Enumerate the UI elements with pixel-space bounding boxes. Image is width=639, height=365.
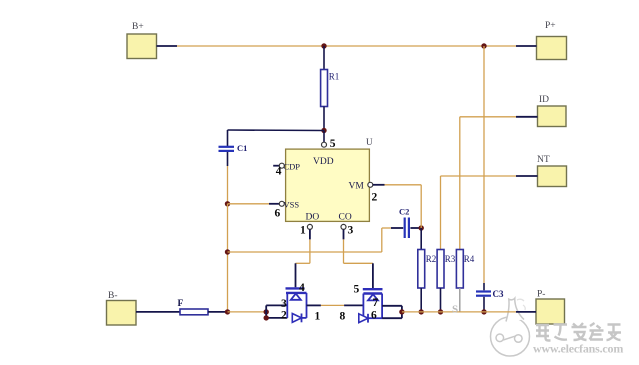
wire rail to FET source split	[228, 311, 267, 313]
node junction left riser / DO-CO net	[225, 249, 230, 254]
wire C1 top to pin5 node	[228, 130, 325, 146]
pad ID	[538, 95, 567, 127]
diode Q2 body	[359, 314, 382, 323]
node junction Q2/P- rail	[399, 309, 404, 314]
wire C2 right to VM node	[410, 227, 421, 229]
svg-text:R3: R3	[445, 254, 456, 264]
svg-text:P+: P+	[545, 21, 556, 31]
node junction R1 bottom / pin5 / C1 net	[321, 128, 326, 133]
capacitor C2	[399, 207, 409, 239]
svg-text:3: 3	[281, 298, 287, 310]
node junction top P+ riser	[481, 43, 486, 48]
svg-text:C3: C3	[493, 289, 504, 299]
wire P+ riser	[483, 46, 485, 290]
svg-text:P-: P-	[537, 290, 545, 300]
node junction B- riser	[225, 309, 230, 314]
svg-text:ID: ID	[539, 95, 549, 105]
pad P-	[536, 290, 565, 325]
svg-text:1: 1	[300, 225, 306, 237]
node junction C3 bottom	[481, 309, 486, 314]
node junction C2/VM/R2	[419, 225, 424, 230]
svg-text:www.elecfans.com: www.elecfans.com	[533, 342, 623, 356]
svg-text:VDD: VDD	[313, 157, 334, 167]
pin 4 CDP	[273, 163, 284, 177]
svg-text:CDP: CDP	[284, 162, 301, 172]
resistor R1	[321, 46, 340, 131]
wire DO to Q1 gate	[296, 229, 310, 287]
pin 1 DO	[300, 224, 312, 236]
svg-text:3: 3	[348, 225, 354, 237]
svg-text:6: 6	[371, 310, 377, 322]
svg-text:S: S	[452, 304, 458, 316]
wire top rail B+ to P+	[157, 45, 537, 47]
svg-text:C1: C1	[237, 143, 247, 153]
wire source split verticals	[266, 305, 287, 318]
wire Q1 drain to Q2 source	[307, 304, 364, 306]
wire VSS pin	[228, 203, 280, 205]
wire ID net	[460, 116, 538, 118]
svg-text:2: 2	[372, 192, 378, 204]
node junction R2 bottom	[419, 309, 424, 314]
wire VM to C2 node	[373, 185, 421, 228]
pin 6 VSS	[275, 201, 285, 219]
pad B-	[107, 291, 137, 325]
resistor R3	[437, 176, 456, 312]
pin 2 VM	[368, 182, 378, 203]
svg-text:C2: C2	[399, 207, 409, 217]
pad NT	[537, 155, 567, 187]
svg-text:VM: VM	[349, 182, 365, 192]
capacitor C3	[476, 289, 504, 299]
svg-text:F: F	[178, 299, 184, 309]
svg-text:4: 4	[276, 166, 282, 178]
svg-text:U: U	[366, 137, 373, 147]
wire Q2 drain to P- node	[382, 306, 402, 318]
IC U body	[284, 137, 374, 223]
wire C1 bottom to VSS net	[227, 152, 229, 204]
pad P+	[537, 21, 567, 60]
svg-text:R4: R4	[464, 254, 475, 264]
svg-text:DO: DO	[306, 213, 320, 223]
diode Q1 body	[292, 314, 306, 323]
wire NT net	[441, 175, 538, 177]
transistor Q2 (right MOSFET)	[354, 284, 383, 319]
pad B+	[127, 22, 157, 59]
pin 5 VDD	[322, 131, 336, 150]
wire B- to fuse	[136, 311, 180, 313]
svg-text:1: 1	[315, 311, 321, 323]
svg-text:4: 4	[299, 282, 305, 294]
wire bottom rail to P-	[402, 311, 536, 313]
node junction pin2 elbow	[264, 315, 269, 320]
wire C3 bottom	[483, 297, 485, 312]
svg-text:B+: B+	[132, 22, 144, 32]
resistor R4	[456, 117, 474, 312]
node junction R3 bottom	[438, 309, 443, 314]
svg-text:NT: NT	[537, 155, 550, 165]
watermark CJK text	[536, 323, 621, 341]
svg-text:6: 6	[275, 208, 281, 220]
svg-text:5: 5	[354, 284, 360, 296]
node junction C1/VSS	[225, 201, 230, 206]
svg-text:B-: B-	[108, 291, 118, 301]
svg-text:R2: R2	[426, 254, 437, 264]
svg-text:R1: R1	[329, 72, 340, 82]
watermark logo bubble	[491, 298, 530, 356]
svg-text:8: 8	[340, 311, 346, 323]
fuse F	[178, 299, 209, 315]
node junction source split	[264, 309, 269, 314]
wire CO to Q2 gate	[344, 229, 373, 288]
wire fuse to junction	[208, 311, 228, 313]
svg-text:5: 5	[330, 138, 336, 150]
svg-text:VSS: VSS	[284, 200, 300, 210]
transistor Q1 (left MOSFET)	[286, 282, 307, 318]
pin 3 CO	[341, 224, 354, 236]
resistor R2	[418, 228, 437, 312]
wire left vertical to B- rail	[227, 204, 229, 312]
svg-text:CO: CO	[339, 213, 352, 223]
svg-text:7: 7	[373, 297, 379, 309]
wire VSS net to C2 left	[228, 228, 404, 252]
watermark faint smudge	[517, 299, 525, 310]
node junction top R1	[321, 43, 326, 48]
svg-text:2: 2	[281, 310, 287, 322]
capacitor C1	[219, 143, 248, 153]
